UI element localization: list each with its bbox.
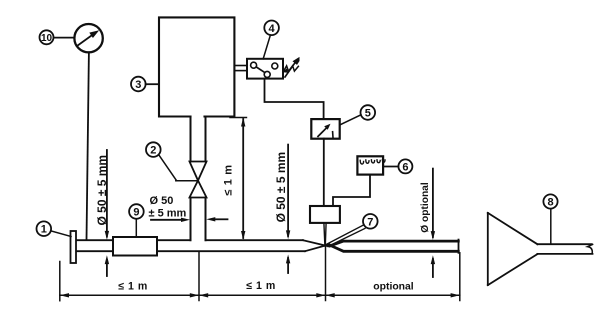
label 1 <box>37 221 72 236</box>
svg-text:4: 4 <box>269 23 276 35</box>
venturi right pipe <box>331 240 459 253</box>
gauge U10 <box>74 24 102 52</box>
svg-text:7: 7 <box>367 216 373 228</box>
label 7 <box>327 214 378 246</box>
label 4 <box>263 21 279 59</box>
svg-text:5: 5 <box>365 108 371 120</box>
svg-text:10: 10 <box>41 33 53 44</box>
label 9 <box>129 204 144 237</box>
valve V2 <box>190 162 207 198</box>
wire gauge to pipe <box>87 52 89 240</box>
tick tee <box>198 252 200 301</box>
svg-text:1: 1 <box>41 224 47 236</box>
regulator 5 <box>311 119 339 139</box>
svg-text:3: 3 <box>135 79 141 91</box>
svg-text:6: 6 <box>402 161 408 173</box>
funnel 8 <box>488 213 593 285</box>
svg-text:8: 8 <box>547 197 553 209</box>
spark symbol <box>283 57 300 77</box>
dim d optional <box>420 169 435 277</box>
svg-text:≤ 1 m: ≤ 1 m <box>246 280 276 292</box>
svg-text:Ø 50: Ø 50 <box>150 195 174 207</box>
flange 1 <box>71 231 77 263</box>
svg-text:Ø 50 ± 5 mm: Ø 50 ± 5 mm <box>274 152 288 223</box>
svg-text:optional: optional <box>373 281 414 292</box>
horizontal pipe <box>76 240 330 251</box>
switch box 4 <box>234 59 283 79</box>
pipe chamber to valve <box>190 117 192 162</box>
needle <box>324 223 325 246</box>
wire 5 down <box>323 139 325 206</box>
bottom dimension line <box>60 247 460 301</box>
svg-text:± 5 mm: ± 5 mm <box>149 207 187 219</box>
pipe valve to tee <box>190 198 192 241</box>
dim d50 valve (two line text + side arrows) <box>149 195 228 222</box>
dim le 1m vertical <box>222 118 246 240</box>
label 5 <box>340 105 375 125</box>
dimension arrowheads <box>60 293 69 297</box>
svg-text:9: 9 <box>133 207 139 219</box>
chamber box 3 <box>159 17 234 116</box>
dim d50 left <box>95 150 109 276</box>
tick venturi <box>325 247 327 301</box>
label 8 <box>543 194 557 244</box>
tick pipe end <box>459 253 461 301</box>
tick left <box>59 262 61 301</box>
label 10 <box>40 30 75 44</box>
label 3 <box>131 77 159 92</box>
label 2 <box>146 142 198 181</box>
svg-text:≤ 1 m: ≤ 1 m <box>118 280 148 292</box>
label 6 <box>383 159 412 173</box>
dim d50 mid <box>274 145 291 273</box>
svg-text:≤ 1 m: ≤ 1 m <box>222 164 234 196</box>
sample box 9 <box>113 237 157 256</box>
wire 4 to 5 <box>265 79 324 119</box>
svg-text:2: 2 <box>150 145 156 157</box>
svg-text:Ø optional: Ø optional <box>420 182 431 233</box>
nozzle box <box>310 206 340 223</box>
wire 6 down <box>333 175 370 206</box>
recorder 6 <box>357 156 385 174</box>
